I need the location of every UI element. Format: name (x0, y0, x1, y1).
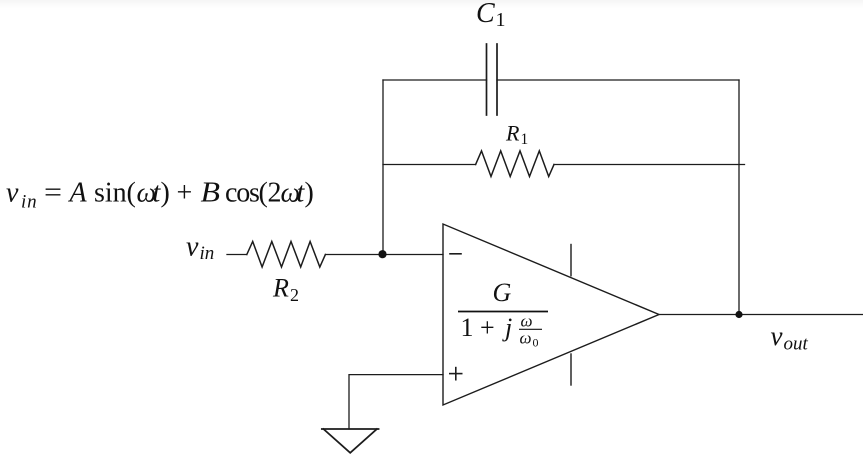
label R1 (505, 120, 528, 147)
svg-text:=: = (44, 178, 62, 209)
wire top feedback right segment (497, 79, 739, 81)
svg-text:): ) (305, 178, 314, 209)
op-amp plus sign (450, 368, 462, 380)
svg-text:(: ( (127, 178, 136, 209)
resistor R1 (476, 151, 554, 177)
resistor R2 (247, 242, 326, 268)
svg-text:out: out (784, 333, 809, 354)
svg-text:2: 2 (290, 285, 299, 305)
svg-text:v: v (771, 321, 783, 351)
svg-text:A: A (68, 178, 88, 209)
svg-text:v: v (6, 178, 19, 209)
equation vin = A sin(wt) + B cos(2wt) (6, 178, 314, 213)
wire right vertical feedback (738, 80, 740, 315)
svg-text:0: 0 (533, 336, 539, 350)
svg-text:in: in (21, 192, 37, 213)
svg-text:B: B (201, 178, 221, 209)
svg-text:in: in (200, 243, 215, 264)
svg-text:R: R (272, 273, 289, 302)
svg-text:+: + (177, 178, 193, 209)
svg-text:ω: ω (520, 329, 532, 348)
label C1 (476, 0, 506, 31)
svg-text:C: C (476, 0, 495, 29)
svg-text:1 +: 1 + (461, 313, 495, 342)
svg-text:v: v (186, 232, 199, 263)
label vin at input (186, 232, 214, 264)
svg-text:j: j (502, 313, 512, 342)
svg-text:1: 1 (521, 131, 529, 148)
wire output (659, 314, 863, 316)
wire R1 right (554, 164, 745, 166)
svg-text:cos: cos (225, 178, 259, 209)
svg-text:G: G (493, 278, 512, 307)
wire vin stub (227, 254, 247, 256)
svg-text:1: 1 (496, 9, 506, 31)
label R2 (272, 273, 299, 304)
wire R2 to op-amp inverting input (325, 254, 443, 256)
svg-text:sin: sin (94, 178, 127, 209)
node junction inverting input (378, 250, 386, 258)
op-amp minus sign (450, 253, 461, 255)
svg-text:2: 2 (268, 178, 282, 209)
op-amp gain label G / (1 + j w/w0) (458, 278, 548, 350)
capacitor C1 (487, 44, 498, 115)
node output junction (735, 311, 742, 318)
ground (322, 429, 379, 453)
wire left vertical feedback (382, 80, 384, 254)
svg-text:(: ( (259, 178, 268, 209)
wire top feedback left segment (383, 79, 487, 81)
wire R1 left (383, 164, 476, 166)
op-amp power pin top (570, 245, 572, 276)
svg-text:): ) (161, 178, 170, 209)
op-amp U1 triangle (443, 224, 659, 405)
op-amp power pin bottom (570, 354, 572, 385)
label vout (771, 321, 809, 354)
wire noninverting input (349, 375, 443, 429)
svg-text:R: R (505, 120, 520, 145)
